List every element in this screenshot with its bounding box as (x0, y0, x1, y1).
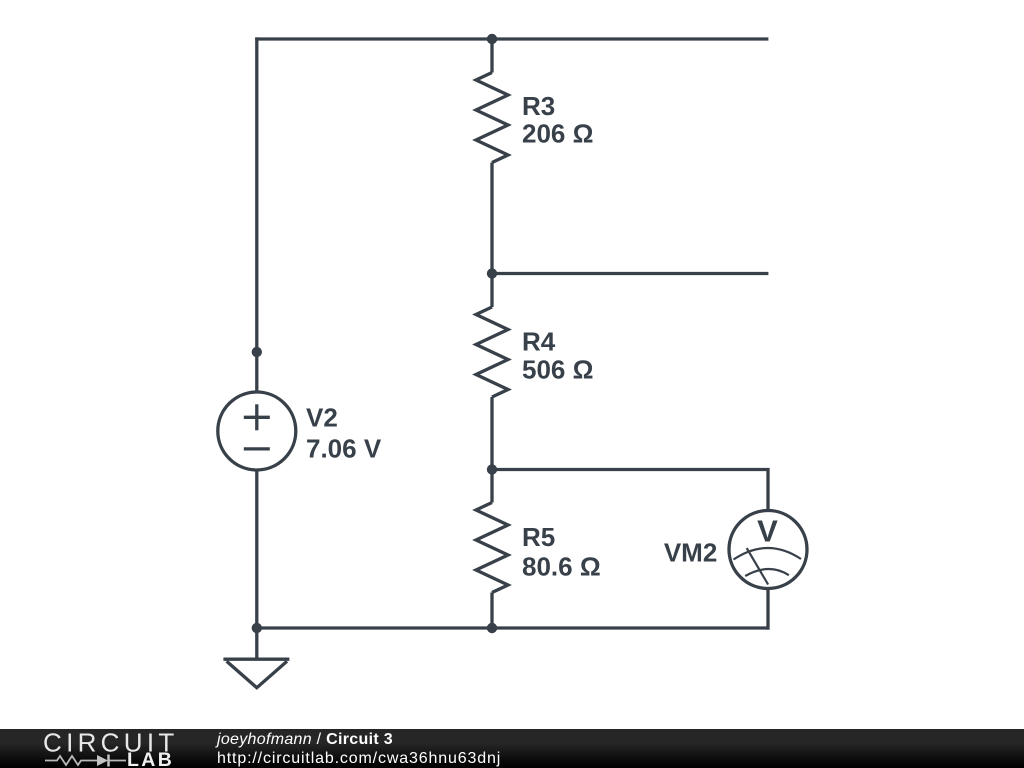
resistor R4 zigzag body (476, 307, 508, 397)
svg-text:80.6 Ω: 80.6 Ω (522, 552, 601, 582)
junction at R4/R5 node (487, 464, 497, 474)
resistor R5 zigzag body (476, 503, 508, 593)
ground symbol triangle (223, 658, 289, 661)
V2 minus sign (244, 447, 270, 450)
junction at ground rail / R5 (487, 623, 497, 633)
wire V2 top lead (255, 352, 258, 392)
voltmeter VM2 scale arc upper (734, 548, 802, 560)
junction dots (252, 34, 498, 633)
svg-text:206 Ω: 206 Ω (522, 119, 593, 149)
wire R3 top lead from top rail (490, 39, 493, 73)
svg-text:7.06 V: 7.06 V (306, 433, 382, 463)
footer bar (0, 729, 1024, 768)
wire V2 bottom lead down to ground rail (255, 470, 258, 628)
wire R4 top lead (490, 274, 493, 308)
wire middle net stub to open end right (492, 272, 768, 275)
CircuitLab logo diode (97, 755, 108, 766)
wire R4 bottom lead to lower node (490, 397, 493, 470)
CircuitLab logo resistor squiggle (45, 756, 97, 765)
voltmeter VM2 needle (747, 548, 768, 584)
svg-text:V: V (757, 514, 778, 549)
wire R5 bottom lead to ground rail (490, 593, 493, 629)
svg-text:VM2: VM2 (664, 537, 717, 567)
V2 plus sign (244, 416, 270, 419)
svg-text:506 Ω: 506 Ω (522, 355, 593, 385)
wire R3 bottom lead to middle node (490, 163, 493, 274)
junction at V2 top terminal (252, 347, 262, 357)
junction at top rail / R3 (487, 34, 497, 44)
footer credit text (217, 731, 501, 768)
wire left riser: V2 top terminal up to top rail (255, 37, 258, 352)
voltmeter VM2 scale arc lower (745, 569, 789, 576)
wire bottom ground rail (255, 626, 768, 629)
wire lower net to voltmeter branch (492, 470, 768, 511)
wire ground stub below rail (255, 628, 258, 659)
junction at ground rail left (252, 623, 262, 633)
wire top net: V2 positive rail from left riser to open end (255, 37, 768, 40)
svg-text:R5: R5 (522, 522, 555, 552)
resistor R3 zigzag body (476, 73, 508, 163)
svg-text:R4: R4 (522, 327, 556, 357)
voltage source V2 circle (218, 392, 296, 470)
svg-text:LAB: LAB (127, 749, 174, 768)
voltmeter VM2 circle (729, 511, 807, 589)
wire R5 top lead (490, 470, 493, 503)
svg-text:R3: R3 (522, 91, 555, 121)
svg-text:V2: V2 (306, 403, 338, 433)
wire VM2 bottom lead to ground rail (766, 589, 769, 630)
junction at R3/R4 node (487, 268, 497, 278)
